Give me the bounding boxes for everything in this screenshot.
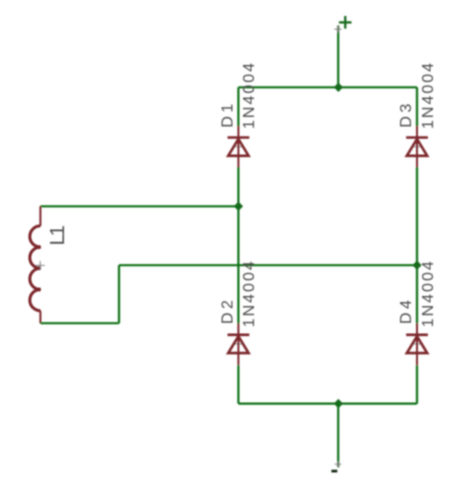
inductor L1 xyxy=(30,206,41,323)
wire top rail xyxy=(238,86,417,88)
diode D3 xyxy=(406,126,428,168)
wire bottom supply vertical xyxy=(337,404,339,468)
diode D2 xyxy=(228,323,250,365)
svg-text:1N4004: 1N4004 xyxy=(420,61,437,129)
origin cross D4 xyxy=(413,339,422,348)
svg-text:1N4004: 1N4004 xyxy=(241,61,258,129)
pin cross of -V supply xyxy=(335,461,342,468)
svg-text:D4: D4 xyxy=(398,297,415,324)
svg-text:D2: D2 xyxy=(219,297,236,324)
origin cross D3 xyxy=(413,142,422,151)
node junction J1 xyxy=(334,83,343,92)
wire step vertical xyxy=(118,265,120,323)
origin cross D2 xyxy=(234,339,243,348)
node junction J2 xyxy=(234,202,243,211)
svg-text:1N4004: 1N4004 xyxy=(420,259,437,327)
svg-text:D3: D3 xyxy=(398,100,415,127)
wire mid horizontal to J3 xyxy=(119,264,417,266)
svg-text:D1: D1 xyxy=(219,100,236,127)
power symbol +V xyxy=(339,16,352,29)
wire bottom rail xyxy=(238,403,417,405)
wire right branch upper xyxy=(416,87,418,126)
diode D4 xyxy=(406,323,428,365)
power symbol -V xyxy=(331,470,337,473)
svg-text:L1: L1 xyxy=(47,225,69,245)
wire J2 to L1 xyxy=(40,205,238,207)
wire right branch middle xyxy=(416,167,418,323)
svg-text:1N4004: 1N4004 xyxy=(241,259,258,327)
origin cross L1 xyxy=(36,261,45,270)
wire left branch middle xyxy=(237,167,239,323)
wire left branch lower xyxy=(237,365,239,403)
node junction J3 xyxy=(412,261,421,270)
wire left branch upper xyxy=(237,87,239,126)
wire right branch lower xyxy=(416,365,418,403)
node junction J4 xyxy=(334,399,343,408)
pin cross of +V supply xyxy=(334,26,341,33)
wire top supply vertical xyxy=(337,25,339,87)
diode D1 xyxy=(228,126,250,168)
wire L1 bottom to step xyxy=(40,322,119,324)
origin cross D1 xyxy=(234,142,243,151)
